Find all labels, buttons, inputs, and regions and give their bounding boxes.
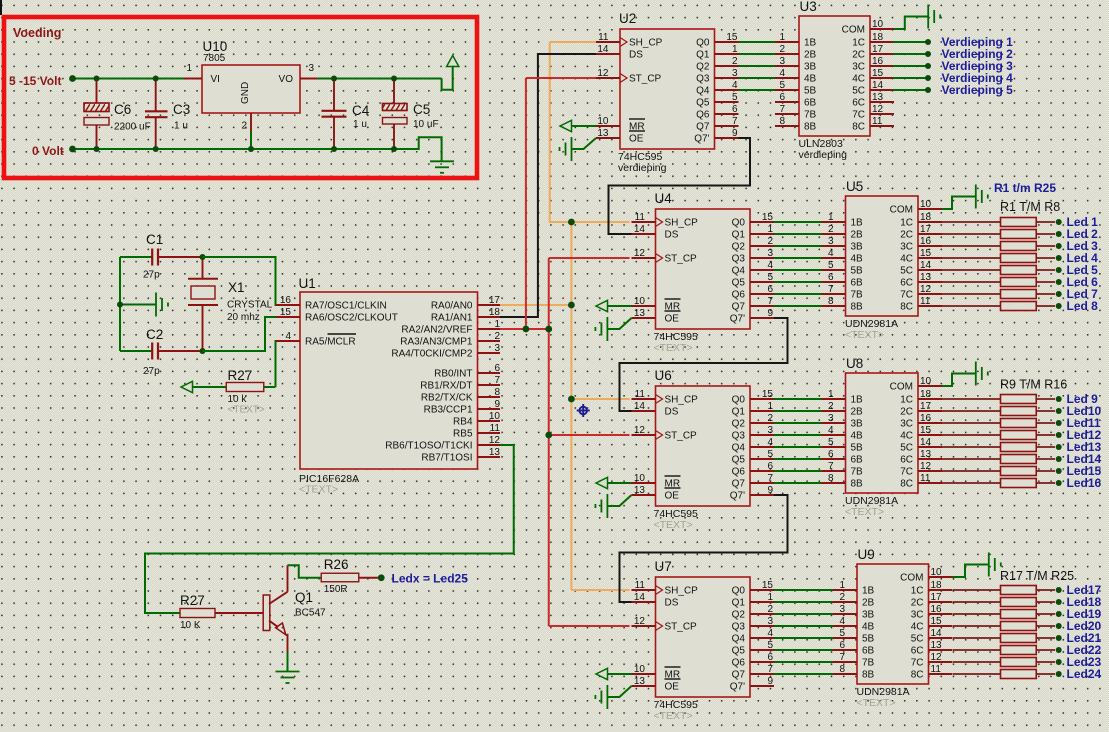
svg-text:8: 8 bbox=[494, 387, 500, 398]
ground U8 COM bbox=[942, 374, 976, 387]
ground power section bbox=[430, 161, 454, 173]
junction C5 bottom bbox=[391, 146, 397, 152]
wire net RA1 black bbox=[500, 54, 614, 317]
svg-text:3: 3 bbox=[732, 68, 738, 79]
svg-text:DS: DS bbox=[665, 598, 679, 609]
svg-text:4: 4 bbox=[732, 80, 738, 91]
ground U6 OE bbox=[607, 495, 631, 506]
svg-text:1C: 1C bbox=[900, 218, 913, 229]
driver U5 UDN2981A bbox=[822, 179, 943, 341]
svg-text:10: 10 bbox=[489, 411, 501, 422]
svg-text:17: 17 bbox=[931, 592, 943, 603]
svg-text:5: 5 bbox=[732, 92, 738, 103]
junction X1 top bbox=[200, 254, 206, 260]
svg-text:8: 8 bbox=[839, 664, 845, 675]
svg-text:Q3: Q3 bbox=[732, 254, 746, 265]
resistor R led wire 23 bbox=[953, 661, 1001, 663]
svg-text:3: 3 bbox=[494, 343, 500, 354]
svg-text:11: 11 bbox=[490, 423, 501, 434]
ground U7 OE bbox=[607, 686, 631, 697]
wire orange to U2 SH_CP bbox=[550, 41, 614, 43]
svg-text:Q2: Q2 bbox=[732, 610, 746, 621]
svg-text:17: 17 bbox=[489, 295, 501, 306]
terminal arrow U7 MR bbox=[596, 668, 608, 679]
svg-text:3B: 3B bbox=[804, 62, 817, 73]
svg-text:Q1: Q1 bbox=[696, 50, 710, 61]
resistor R led wire 12 bbox=[942, 434, 1001, 436]
svg-text:RA2/AN2/VREF: RA2/AN2/VREF bbox=[401, 325, 472, 336]
terminal Led 17 bbox=[1056, 587, 1062, 593]
wire 0V rail bbox=[74, 137, 442, 161]
svg-text:Q6: Q6 bbox=[732, 467, 746, 478]
svg-text:6: 6 bbox=[839, 640, 845, 651]
svg-text:3B: 3B bbox=[851, 419, 864, 430]
svg-text:X1: X1 bbox=[228, 280, 245, 295]
svg-text:7805: 7805 bbox=[203, 53, 226, 64]
wires U6 Q to U8 B bbox=[774, 398, 822, 400]
svg-text:OE: OE bbox=[629, 134, 644, 145]
svg-text:0 Volt: 0 Volt bbox=[32, 144, 64, 158]
svg-text:8B: 8B bbox=[851, 479, 864, 490]
svg-text:15: 15 bbox=[872, 68, 884, 79]
resistor R7 led wire 7 bbox=[942, 293, 1001, 295]
resistor body led 13 bbox=[1001, 443, 1037, 452]
resistor body led 24 bbox=[1001, 670, 1037, 679]
junction C6 top bbox=[94, 76, 100, 82]
svg-text:Q5: Q5 bbox=[696, 98, 710, 109]
svg-text:12: 12 bbox=[920, 461, 932, 472]
svg-text:R1 t/m R25: R1 t/m R25 bbox=[994, 181, 1056, 195]
svg-text:Q1: Q1 bbox=[732, 598, 746, 609]
svg-text:14: 14 bbox=[872, 80, 884, 91]
svg-text:9: 9 bbox=[767, 308, 773, 319]
svg-text:C2: C2 bbox=[146, 327, 163, 342]
svg-text:10 k: 10 k bbox=[228, 394, 248, 405]
svg-text:12: 12 bbox=[920, 284, 932, 295]
resistor R27 10k (MCLR) bbox=[193, 368, 276, 416]
svg-text:18: 18 bbox=[931, 580, 943, 591]
terminal Led 19 bbox=[1056, 611, 1062, 617]
resistor R led wire 13 bbox=[942, 446, 1001, 448]
wires U2 Q0-Q4 to U3 1B-5B bbox=[739, 41, 776, 43]
svg-text:3C: 3C bbox=[900, 419, 913, 430]
driver U8 UDN2981A bbox=[822, 356, 943, 518]
terminal arrow U2 MR bbox=[560, 120, 572, 131]
svg-text:8: 8 bbox=[828, 473, 834, 484]
svg-text:<TEXT>: <TEXT> bbox=[857, 697, 896, 709]
svg-text:1B: 1B bbox=[851, 218, 864, 229]
resistor R led wire 10 bbox=[942, 410, 1001, 412]
svg-text:4: 4 bbox=[828, 248, 834, 259]
svg-text:U5: U5 bbox=[846, 179, 863, 194]
svg-text:DS: DS bbox=[665, 230, 679, 241]
svg-text:2: 2 bbox=[779, 44, 785, 55]
svg-text:5 -15 Volt: 5 -15 Volt bbox=[9, 74, 61, 88]
terminal Led 3 bbox=[1056, 243, 1062, 249]
svg-text:7: 7 bbox=[779, 104, 785, 115]
svg-text:5B: 5B bbox=[851, 443, 864, 454]
svg-text:13: 13 bbox=[597, 128, 609, 139]
terminal verdieping 2 bbox=[925, 51, 931, 57]
svg-text:12: 12 bbox=[634, 248, 646, 259]
svg-text:1: 1 bbox=[828, 212, 834, 223]
shift register U4 74HC595 bbox=[632, 191, 775, 354]
resistor body led 11 bbox=[1001, 419, 1037, 428]
svg-text:10 uF: 10 uF bbox=[413, 119, 439, 130]
junction C5 top bbox=[391, 76, 397, 82]
svg-text:7C: 7C bbox=[852, 110, 865, 121]
svg-text:4C: 4C bbox=[900, 254, 913, 265]
svg-text:RA4/T0CKI/CMP2: RA4/T0CKI/CMP2 bbox=[391, 349, 473, 360]
svg-text:7B: 7B bbox=[804, 110, 817, 121]
svg-text:Q3: Q3 bbox=[732, 431, 746, 442]
svg-text:12: 12 bbox=[872, 104, 884, 115]
svg-text:15: 15 bbox=[920, 248, 932, 259]
svg-text:8B: 8B bbox=[862, 670, 875, 681]
svg-text:U2: U2 bbox=[619, 11, 636, 26]
svg-text:R17 T/M R25: R17 T/M R25 bbox=[1000, 569, 1074, 583]
resistor R3 led wire 3 bbox=[942, 245, 1001, 247]
svg-text:3: 3 bbox=[767, 616, 773, 627]
svg-text:ST_CP: ST_CP bbox=[665, 431, 698, 442]
svg-text:Q1: Q1 bbox=[295, 590, 313, 605]
wire collector to R26 bbox=[288, 565, 322, 578]
svg-text:1: 1 bbox=[494, 319, 500, 330]
svg-text:3: 3 bbox=[309, 63, 315, 74]
svg-text:11: 11 bbox=[635, 580, 646, 591]
svg-text:COM: COM bbox=[890, 205, 913, 216]
svg-text:RB5: RB5 bbox=[453, 429, 473, 440]
transistor Q1 BC547 bbox=[263, 565, 326, 652]
svg-text:U7: U7 bbox=[655, 559, 672, 574]
svg-text:10: 10 bbox=[634, 473, 646, 484]
svg-text:U3: U3 bbox=[800, 0, 817, 14]
svg-text:4B: 4B bbox=[862, 622, 875, 633]
svg-text:6C: 6C bbox=[852, 98, 865, 109]
svg-text:Voeding: Voeding bbox=[13, 26, 61, 40]
svg-text:OE: OE bbox=[665, 682, 680, 693]
terminal Led 8 bbox=[1056, 303, 1062, 309]
resistor body led 20 bbox=[1001, 622, 1037, 631]
svg-text:1C: 1C bbox=[911, 586, 924, 597]
svg-text:15: 15 bbox=[280, 307, 292, 318]
svg-text:6: 6 bbox=[767, 284, 773, 295]
microcontroller U1 PIC16F628A bbox=[276, 276, 500, 496]
ground U9 COM bbox=[953, 565, 989, 578]
shift register U7 74HC595 bbox=[632, 559, 775, 722]
resistor R26 150R bbox=[321, 557, 378, 595]
svg-text:16: 16 bbox=[920, 236, 932, 247]
resistor R led wire 16 bbox=[942, 482, 1001, 484]
svg-text:2: 2 bbox=[828, 401, 834, 412]
driver U9 UDN2981A bbox=[833, 547, 953, 709]
resistor body led 4 bbox=[1001, 254, 1037, 263]
svg-text:11: 11 bbox=[920, 296, 931, 307]
wire +V rail bbox=[74, 78, 184, 80]
resistor body led 1 bbox=[1001, 218, 1037, 227]
svg-text:Q3: Q3 bbox=[732, 622, 746, 633]
svg-text:Q4: Q4 bbox=[732, 266, 746, 277]
svg-text:Led16: Led16 bbox=[1067, 476, 1102, 490]
svg-text:5: 5 bbox=[767, 272, 773, 283]
wire verdieping 2 bbox=[893, 53, 926, 55]
svg-text:3: 3 bbox=[828, 236, 834, 247]
svg-text:R1 T/M R8: R1 T/M R8 bbox=[1000, 200, 1060, 214]
svg-text:OE: OE bbox=[665, 314, 680, 325]
svg-text:CRYSTAL: CRYSTAL bbox=[227, 300, 273, 311]
svg-text:2C: 2C bbox=[852, 50, 865, 61]
svg-text:7B: 7B bbox=[851, 290, 864, 301]
svg-text:<TEXT>: <TEXT> bbox=[299, 484, 338, 496]
svg-text:1: 1 bbox=[186, 63, 192, 74]
svg-text:SH_CP: SH_CP bbox=[665, 395, 699, 406]
svg-text:1 u: 1 u bbox=[174, 121, 188, 132]
svg-text:5: 5 bbox=[828, 260, 834, 271]
junction C4 top bbox=[331, 76, 337, 82]
terminal arrow U4 MR bbox=[596, 300, 608, 311]
svg-text:2: 2 bbox=[828, 224, 834, 235]
svg-text:RA7/OSC1/CLKIN: RA7/OSC1/CLKIN bbox=[305, 301, 387, 312]
terminal Led 1 bbox=[1056, 219, 1062, 225]
resistor R led wire 18 bbox=[953, 601, 1001, 603]
svg-text:8C: 8C bbox=[852, 122, 865, 133]
svg-text:2B: 2B bbox=[804, 50, 817, 61]
svg-text:9: 9 bbox=[767, 676, 773, 687]
resistor body led 12 bbox=[1001, 431, 1037, 440]
svg-text:6B: 6B bbox=[851, 278, 864, 289]
svg-text:11: 11 bbox=[598, 32, 609, 43]
svg-text:RB3/CCP1: RB3/CCP1 bbox=[424, 405, 473, 416]
svg-text:RB0/INT: RB0/INT bbox=[434, 369, 472, 380]
resistor body led 14 bbox=[1001, 455, 1037, 464]
svg-text:18: 18 bbox=[920, 212, 932, 223]
regulator U10 7805 bbox=[184, 39, 317, 149]
svg-text:6: 6 bbox=[828, 272, 834, 283]
ground U4 OE bbox=[607, 318, 631, 329]
svg-text:7: 7 bbox=[732, 116, 738, 127]
svg-text:6: 6 bbox=[494, 363, 500, 374]
svg-text:16: 16 bbox=[872, 56, 884, 67]
svg-text:2200 uF: 2200 uF bbox=[114, 122, 151, 133]
svg-text:8C: 8C bbox=[900, 479, 913, 490]
svg-text:17: 17 bbox=[872, 44, 884, 55]
svg-text:2B: 2B bbox=[862, 598, 875, 609]
svg-text:3C: 3C bbox=[911, 610, 924, 621]
svg-text:Q1: Q1 bbox=[732, 407, 746, 418]
shift register U6 74HC595 bbox=[632, 368, 775, 531]
svg-text:2: 2 bbox=[767, 604, 773, 615]
wire U6 Q7 to U7 DS bbox=[620, 495, 788, 602]
svg-text:7: 7 bbox=[828, 284, 834, 295]
driver U3 ULN2803 bbox=[775, 0, 894, 161]
svg-text:12: 12 bbox=[597, 68, 609, 79]
wire net RA0 orange bbox=[500, 304, 571, 306]
svg-text:4B: 4B bbox=[851, 254, 864, 265]
terminal Led 12 bbox=[1056, 432, 1062, 438]
svg-text:5: 5 bbox=[839, 628, 845, 639]
svg-text:5C: 5C bbox=[900, 266, 913, 277]
svg-text:RB2/TX/CK: RB2/TX/CK bbox=[421, 393, 473, 404]
svg-text:2C: 2C bbox=[900, 230, 913, 241]
capacitor C2 27p bbox=[120, 327, 203, 377]
svg-text:RA5/MCLR: RA5/MCLR bbox=[305, 337, 356, 348]
svg-text:3: 3 bbox=[839, 604, 845, 615]
svg-text:C5: C5 bbox=[413, 102, 430, 117]
svg-text:VI: VI bbox=[211, 74, 220, 85]
svg-text:Q0: Q0 bbox=[696, 38, 710, 49]
terminal Led 13 bbox=[1056, 444, 1062, 450]
wire red to U4 ST_CP bbox=[549, 257, 630, 259]
resistor R led wire 20 bbox=[953, 625, 1001, 627]
svg-text:10: 10 bbox=[920, 376, 932, 387]
wires U7 Q to U9 B bbox=[774, 589, 833, 591]
svg-text:6B: 6B bbox=[804, 98, 817, 109]
resistor body led 21 bbox=[1001, 634, 1037, 643]
svg-text:Q6: Q6 bbox=[732, 658, 746, 669]
terminal verdieping 4 bbox=[925, 75, 931, 81]
svg-text:10: 10 bbox=[920, 199, 932, 210]
svg-text:13: 13 bbox=[920, 272, 932, 283]
svg-text:14: 14 bbox=[634, 401, 646, 412]
terminal Ledx bbox=[378, 574, 385, 581]
svg-text:1: 1 bbox=[767, 592, 773, 603]
svg-text:5: 5 bbox=[767, 640, 773, 651]
svg-text:9: 9 bbox=[767, 485, 773, 496]
ground U2 OE bbox=[572, 138, 597, 149]
svg-text:5C: 5C bbox=[900, 443, 913, 454]
svg-text:<TEXT>: <TEXT> bbox=[654, 519, 693, 531]
svg-text:1B: 1B bbox=[862, 586, 875, 597]
svg-text:1C: 1C bbox=[900, 395, 913, 406]
svg-text:17: 17 bbox=[920, 224, 932, 235]
svg-text:Verdieping 5: Verdieping 5 bbox=[942, 83, 1014, 97]
svg-text:Q7: Q7 bbox=[732, 479, 746, 490]
svg-text:8B: 8B bbox=[804, 122, 817, 133]
svg-text:5B: 5B bbox=[804, 86, 817, 97]
svg-text:Q1: Q1 bbox=[732, 230, 746, 241]
svg-text:RB7/T1OSI: RB7/T1OSI bbox=[421, 453, 472, 464]
svg-text:15: 15 bbox=[762, 212, 774, 223]
svg-text:14: 14 bbox=[634, 224, 646, 235]
svg-text:5C: 5C bbox=[911, 634, 924, 645]
svg-text:U10: U10 bbox=[203, 39, 228, 54]
svg-text:2: 2 bbox=[732, 56, 738, 67]
resistor body led 17 bbox=[1001, 586, 1037, 595]
svg-text:10 K: 10 K bbox=[180, 620, 201, 631]
svg-text:Q2: Q2 bbox=[696, 62, 710, 73]
resistor R led wire 15 bbox=[942, 470, 1001, 472]
resistor R6 led wire 6 bbox=[942, 281, 1001, 283]
terminal arrow R27 bbox=[181, 381, 193, 392]
svg-text:1B: 1B bbox=[804, 38, 817, 49]
svg-text:Q4: Q4 bbox=[732, 443, 746, 454]
svg-text:U6: U6 bbox=[655, 368, 672, 383]
resistor R4 led wire 4 bbox=[942, 257, 1001, 259]
svg-text:1C: 1C bbox=[852, 38, 865, 49]
svg-text:4B: 4B bbox=[804, 74, 817, 85]
window corner mark bbox=[0, 0, 2, 15]
wire verdieping 5 bbox=[893, 89, 926, 91]
wire U4 Q7 to U6 DS bbox=[620, 318, 788, 411]
svg-text:3: 3 bbox=[767, 425, 773, 436]
svg-text:Q2: Q2 bbox=[732, 242, 746, 253]
svg-text:<TEXT>: <TEXT> bbox=[845, 329, 884, 341]
svg-text:RB4: RB4 bbox=[453, 417, 473, 428]
junction C3 bottom bbox=[153, 146, 159, 152]
svg-text:ST_CP: ST_CP bbox=[629, 74, 662, 85]
svg-text:7: 7 bbox=[767, 296, 773, 307]
svg-text:1B: 1B bbox=[851, 395, 864, 406]
svg-text:4: 4 bbox=[767, 628, 773, 639]
svg-text:6: 6 bbox=[732, 104, 738, 115]
svg-text:verdieping: verdieping bbox=[618, 162, 667, 174]
svg-text:5B: 5B bbox=[851, 266, 864, 277]
resistor body led 16 bbox=[1001, 479, 1037, 488]
svg-text:SH_CP: SH_CP bbox=[665, 218, 699, 229]
svg-text:DS: DS bbox=[665, 407, 679, 418]
svg-text:Q7: Q7 bbox=[696, 122, 710, 133]
wires U4 Q to U5 B bbox=[774, 221, 822, 223]
resistor body led 23 bbox=[1001, 658, 1037, 667]
svg-text:1: 1 bbox=[767, 401, 773, 412]
svg-text:10: 10 bbox=[597, 116, 609, 127]
svg-text:10: 10 bbox=[931, 567, 943, 578]
svg-text:GND: GND bbox=[240, 82, 251, 104]
svg-text:7: 7 bbox=[828, 461, 834, 472]
svg-text:4: 4 bbox=[285, 331, 291, 342]
resistor R led wire 22 bbox=[953, 649, 1001, 651]
svg-text:10: 10 bbox=[872, 19, 884, 30]
svg-text:verdieping: verdieping bbox=[799, 149, 848, 161]
wire verdieping 4 bbox=[893, 77, 926, 79]
wire U2 Q7 to U4 DS bbox=[609, 138, 751, 234]
svg-text:6: 6 bbox=[779, 92, 785, 103]
svg-text:Q7': Q7' bbox=[694, 134, 709, 145]
svg-text:4: 4 bbox=[828, 425, 834, 436]
terminal 5-15V bbox=[69, 75, 76, 82]
terminal Led 22 bbox=[1056, 647, 1062, 653]
resistor R led wire 24 bbox=[953, 673, 1001, 675]
terminal Led 21 bbox=[1056, 635, 1062, 641]
wire net RA2 red bbox=[500, 328, 549, 330]
svg-text:Q4: Q4 bbox=[696, 86, 710, 97]
junction red U6 bbox=[545, 432, 552, 439]
svg-text:13: 13 bbox=[489, 447, 501, 458]
svg-text:12: 12 bbox=[634, 616, 646, 627]
svg-text:15: 15 bbox=[762, 389, 774, 400]
svg-text:13: 13 bbox=[634, 676, 646, 687]
resistor body led 19 bbox=[1001, 610, 1037, 619]
svg-text:7: 7 bbox=[767, 473, 773, 484]
junction orange U6 bbox=[568, 396, 575, 403]
svg-text:11: 11 bbox=[635, 212, 646, 223]
ground U3 COM bbox=[894, 17, 928, 30]
svg-text:Q7: Q7 bbox=[732, 670, 746, 681]
svg-text:8: 8 bbox=[779, 116, 785, 127]
svg-text:3C: 3C bbox=[900, 242, 913, 253]
svg-text:U8: U8 bbox=[846, 356, 863, 371]
resistor R led wire 17 bbox=[953, 589, 1001, 591]
svg-text:5C: 5C bbox=[852, 86, 865, 97]
svg-text:DS: DS bbox=[629, 50, 643, 61]
ground Q1 bbox=[276, 672, 300, 684]
svg-text:15: 15 bbox=[762, 580, 774, 591]
svg-text:Q4: Q4 bbox=[732, 634, 746, 645]
terminal Led 23 bbox=[1056, 659, 1062, 665]
wire red vertical ST net bbox=[548, 258, 550, 626]
junction red vertical bbox=[545, 326, 552, 333]
svg-text:27p: 27p bbox=[143, 270, 160, 281]
